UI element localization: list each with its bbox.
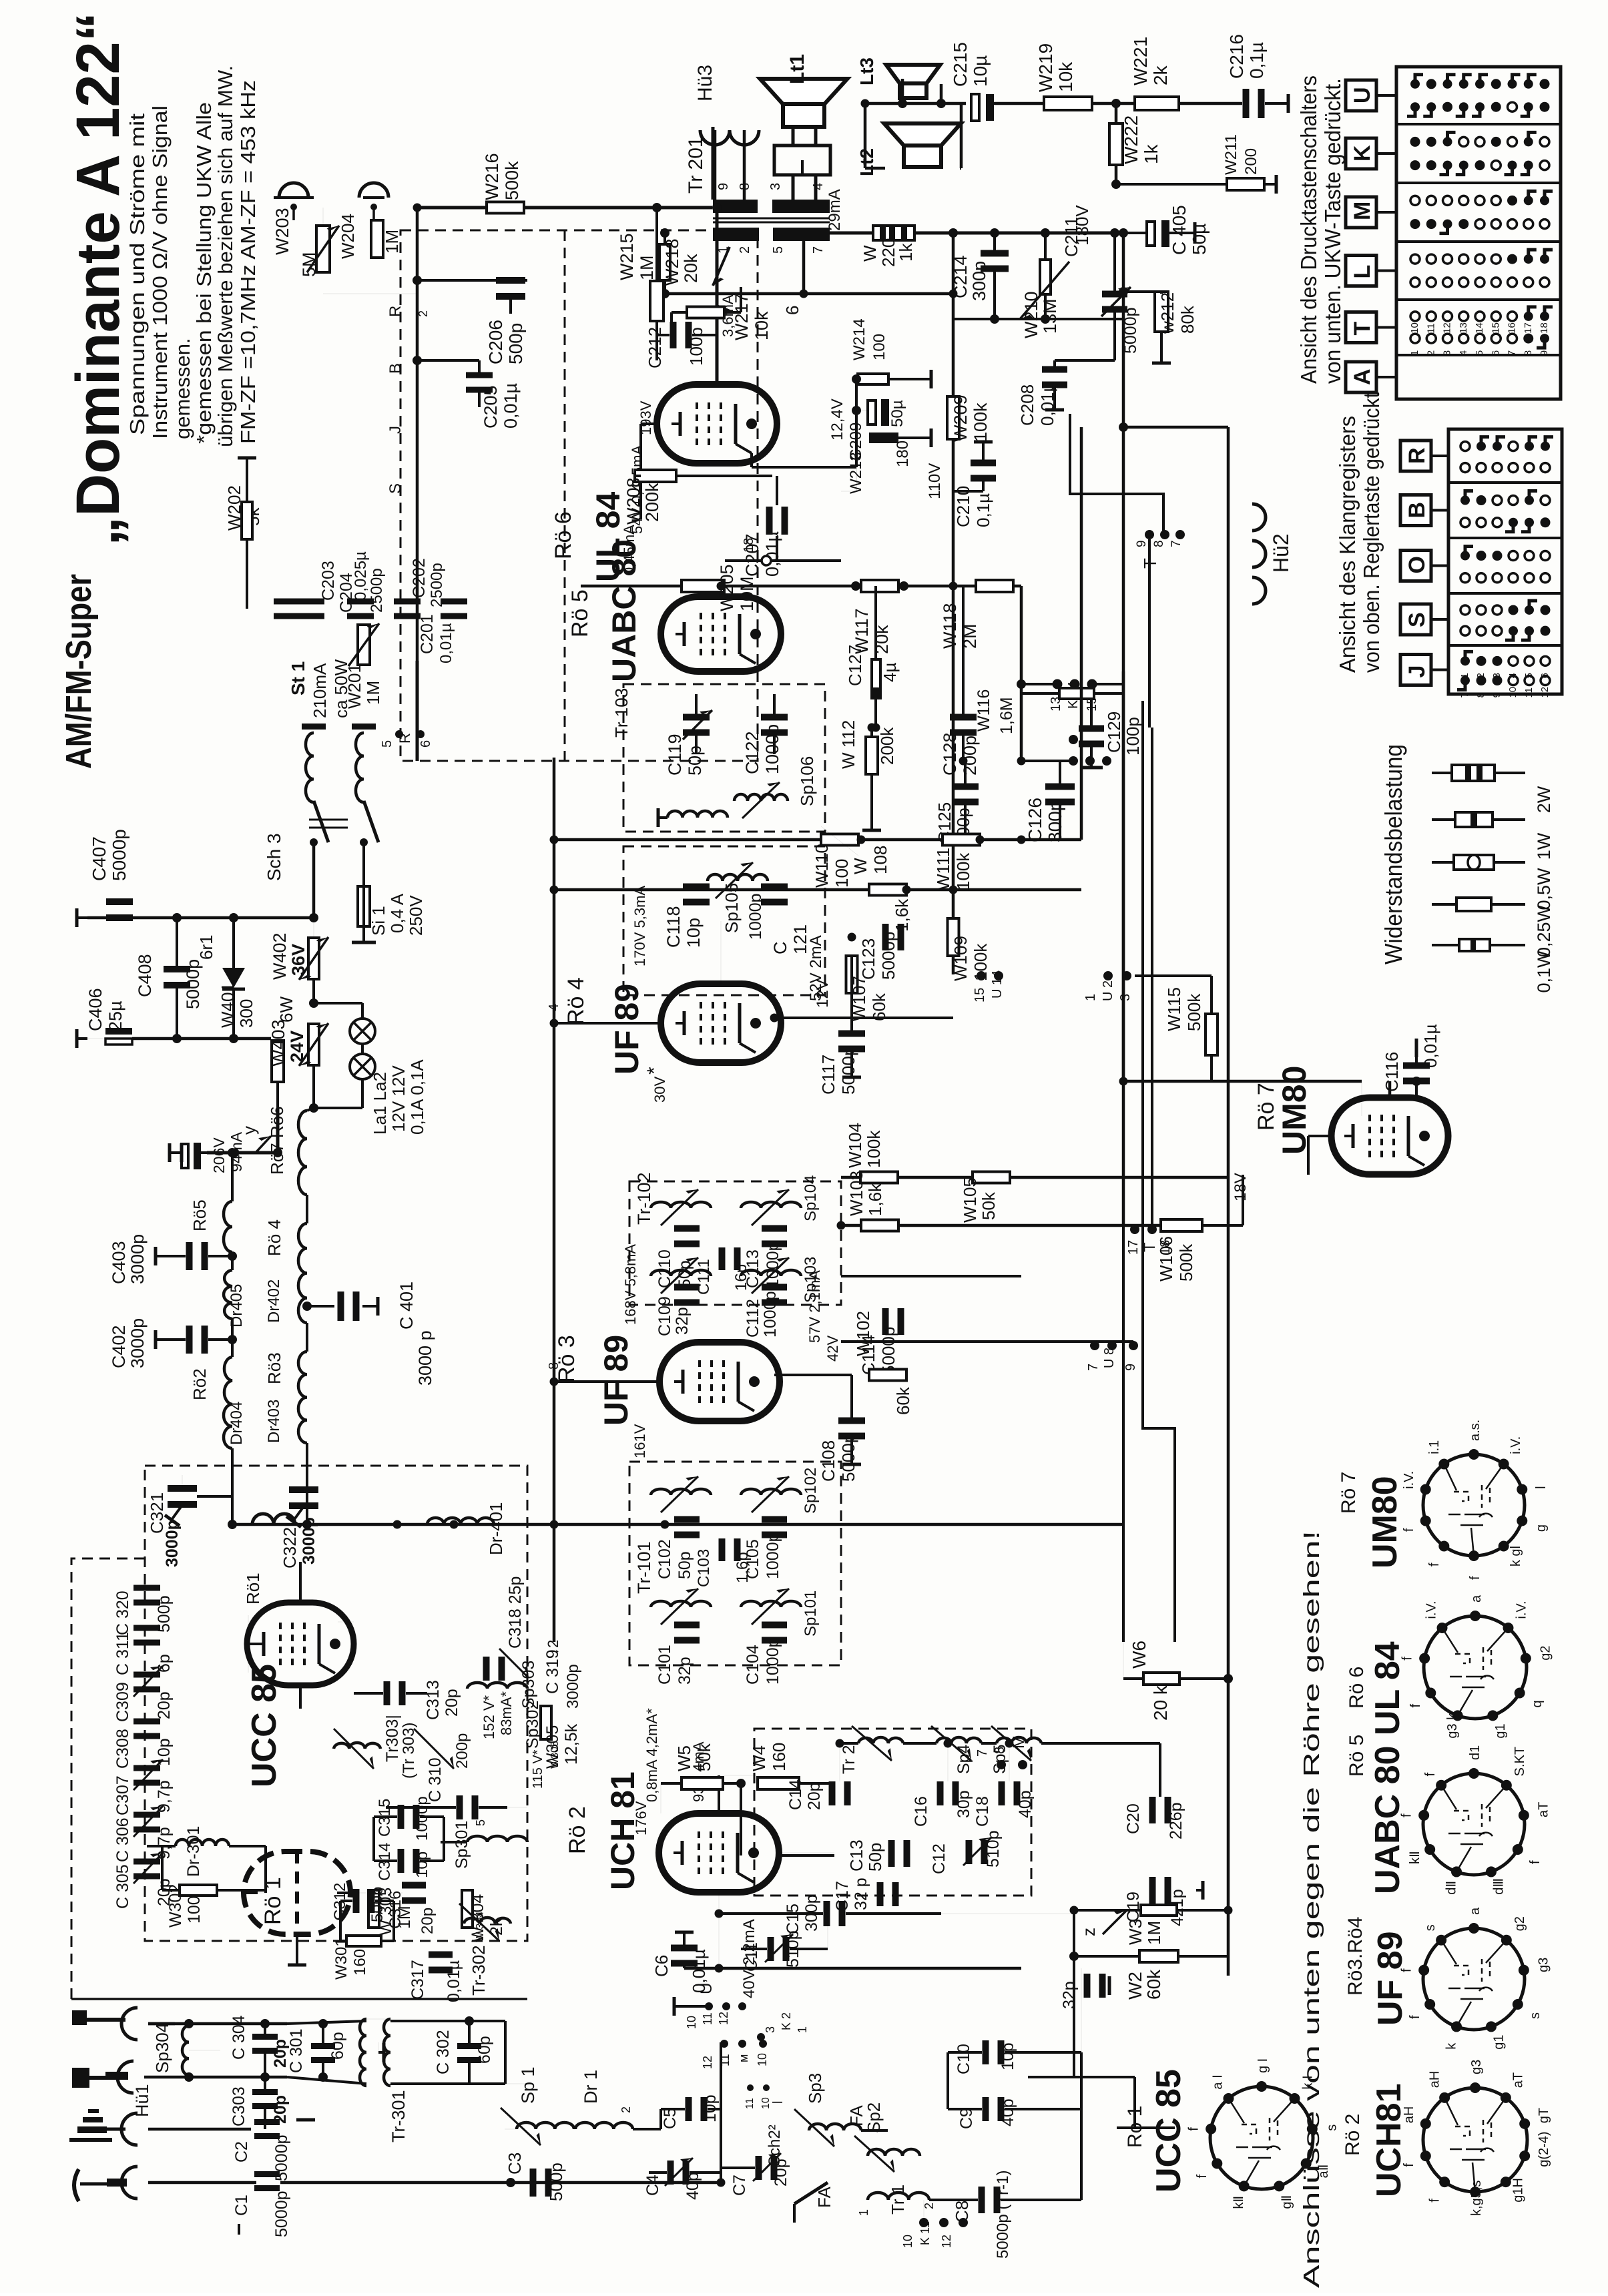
contacts L dots bbox=[720, 2040, 728, 2048]
resistor W221 bbox=[1135, 97, 1179, 110]
svg-text:W110: W110 bbox=[812, 844, 832, 888]
svg-text:W402: W402 bbox=[270, 932, 290, 980]
svg-text:2: 2 bbox=[417, 310, 430, 317]
svg-text:210mA: 210mA bbox=[310, 663, 330, 718]
svg-text:f: f bbox=[1528, 1860, 1543, 1864]
dashed box FM tuner outer bbox=[71, 1558, 145, 1999]
dashed partition bbox=[564, 230, 566, 761]
svg-text:Dr-301: Dr-301 bbox=[184, 1826, 203, 1877]
svg-text:60p: 60p bbox=[475, 2036, 494, 2064]
tube Roe1 UCC85 upper half bbox=[247, 1603, 354, 1685]
earth antenna symbol bbox=[77, 2126, 107, 2133]
wire row 1039 bbox=[1021, 692, 1123, 695]
svg-text:Rö 1: Rö 1 bbox=[260, 1877, 286, 1925]
svg-text:W401: W401 bbox=[218, 982, 238, 1028]
wire row 2284 Dr401 bbox=[232, 1523, 1123, 1526]
svg-text:übrigen Meßwerte beziehen s: übrigen Meßwerte beziehen sich auf MW. bbox=[214, 65, 237, 447]
cap 32p extra bbox=[1084, 1974, 1091, 1998]
svg-text:aT: aT bbox=[1511, 2072, 1525, 2088]
capacitor C322 bbox=[289, 1486, 318, 1493]
svg-text:3: 3 bbox=[1442, 350, 1453, 356]
resistor W103 bbox=[861, 1220, 898, 1231]
wire UL84 cathode bbox=[750, 453, 753, 467]
tone register switch matrix panel bbox=[1448, 429, 1562, 694]
register key S bbox=[1400, 604, 1431, 635]
svg-text:C118: C118 bbox=[663, 906, 684, 948]
svg-text:1M: 1M bbox=[1144, 1921, 1164, 1945]
svg-text:C208: C208 bbox=[1017, 384, 1037, 426]
wire mains rail bbox=[87, 916, 314, 920]
capacitor C117 bbox=[838, 1031, 865, 1037]
resistor W107 bbox=[846, 956, 858, 993]
svg-text:B: B bbox=[1404, 502, 1430, 519]
heater Roe1 bump bbox=[252, 1514, 295, 1524]
bus x1620 lower bbox=[1081, 1968, 1082, 2052]
resistor W106 bbox=[1161, 1219, 1202, 1231]
svg-text:W209: W209 bbox=[951, 394, 971, 442]
svg-text:180: 180 bbox=[894, 441, 912, 467]
resistor W222 bbox=[1109, 123, 1123, 165]
resistor W218 bbox=[659, 244, 670, 280]
svg-text:W301: W301 bbox=[332, 1938, 350, 1980]
speaker Lt3 bbox=[886, 65, 941, 83]
resistor W3 bbox=[1141, 1905, 1177, 1916]
svg-text:1000p: 1000p bbox=[764, 1532, 782, 1579]
svg-text:C9: C9 bbox=[957, 2108, 976, 2129]
wire vertical main right bbox=[952, 233, 955, 974]
contact row M bbox=[1410, 219, 1420, 229]
svg-text:i.V.: i.V. bbox=[1509, 1436, 1523, 1454]
resistor W4 bbox=[758, 1777, 799, 1789]
resistor W112 bbox=[866, 737, 878, 774]
svg-text:160: 160 bbox=[769, 1743, 789, 1771]
svg-text:aH: aH bbox=[1428, 2071, 1442, 2088]
svg-text:1: 1 bbox=[857, 2209, 870, 2216]
svg-text:W221: W221 bbox=[1130, 37, 1151, 85]
svg-text:Tr 1: Tr 1 bbox=[888, 2185, 908, 2215]
svg-text:S: S bbox=[1404, 612, 1430, 627]
resistor W111 bbox=[943, 834, 980, 846]
svg-text:f: f bbox=[1402, 1528, 1416, 1532]
svg-text:5000p: 5000p bbox=[1121, 307, 1140, 354]
capacitor C16 bbox=[937, 1781, 944, 1805]
svg-text:42V: 42V bbox=[824, 1336, 841, 1362]
svg-text:f: f bbox=[1195, 2175, 1210, 2179]
svg-text:0,1µ: 0,1µ bbox=[1246, 42, 1267, 79]
svg-text:0,01µ: 0,01µ bbox=[1420, 1024, 1440, 1068]
svg-text:Rö 2: Rö 2 bbox=[565, 1806, 590, 1854]
tube Roe5 UABC80 bbox=[661, 597, 781, 671]
svg-text:5000p: 5000p bbox=[878, 1327, 898, 1375]
capacitor C4 trim bbox=[667, 2161, 674, 2185]
svg-text:*: * bbox=[643, 1067, 665, 1075]
svg-text:W210: W210 bbox=[1021, 291, 1041, 338]
svg-text:s: s bbox=[1423, 1924, 1438, 1931]
svg-text:C16: C16 bbox=[912, 1796, 930, 1827]
heater chain right Roe3 Dr403 bbox=[298, 1352, 307, 1443]
dots M contacts bbox=[997, 1760, 1006, 1769]
svg-text:C4: C4 bbox=[643, 2175, 662, 2196]
svg-text:g3 k: g3 k bbox=[1445, 1713, 1460, 1739]
svg-text:2k: 2k bbox=[1150, 65, 1171, 85]
svg-text:2: 2 bbox=[619, 2106, 633, 2113]
svg-text:UF 89: UF 89 bbox=[608, 984, 645, 1075]
svg-text:500k: 500k bbox=[502, 161, 522, 200]
svg-text:C309: C309 bbox=[113, 1682, 132, 1722]
capacitor C123 bbox=[882, 924, 889, 950]
tube Roe2 UCH81 bbox=[659, 1813, 779, 1892]
svg-text:4: 4 bbox=[1458, 350, 1469, 356]
svg-text:Hü3: Hü3 bbox=[694, 65, 716, 101]
svg-text:115 V*: 115 V* bbox=[531, 1749, 545, 1789]
svg-text:50p: 50p bbox=[865, 1843, 885, 1872]
svg-text:Sp 1: Sp 1 bbox=[518, 2066, 538, 2104]
svg-text:200: 200 bbox=[1242, 148, 1260, 175]
svg-text:Rö5: Rö5 bbox=[190, 1199, 210, 1231]
svg-text:60k: 60k bbox=[893, 1386, 913, 1415]
svg-text:Rö1: Rö1 bbox=[243, 1572, 263, 1605]
svg-text:8: 8 bbox=[1475, 692, 1487, 697]
svg-text:Sp106: Sp106 bbox=[797, 756, 817, 806]
resistor W105 bbox=[973, 1172, 1010, 1183]
wire grid bus y878 bbox=[581, 585, 1021, 588]
wires lower right AM bbox=[1073, 1910, 1075, 2077]
coil Sp4 bbox=[936, 1737, 981, 1743]
capacitor C205 bbox=[466, 372, 493, 378]
resistor W208 bbox=[635, 470, 676, 482]
trim arrows on C305-C309 bbox=[133, 1666, 163, 1697]
svg-text:C5: C5 bbox=[661, 2108, 680, 2129]
svg-text:1: 1 bbox=[1459, 673, 1470, 678]
svg-text:12V 12V: 12V 12V bbox=[388, 1065, 409, 1132]
svg-text:UM80: UM80 bbox=[1366, 1476, 1404, 1568]
svg-text:5: 5 bbox=[1474, 350, 1485, 356]
capacitor C20 bbox=[1149, 1797, 1156, 1823]
svg-text:R: R bbox=[1404, 447, 1430, 464]
capacitor C2 bbox=[254, 2119, 280, 2125]
resistor W204 1M bbox=[371, 220, 383, 258]
svg-text:6: 6 bbox=[782, 306, 802, 315]
svg-text:Sch 3: Sch 3 bbox=[264, 833, 284, 881]
capacitor C127 electrolytic bbox=[872, 659, 880, 698]
svg-text:UF 89: UF 89 bbox=[1371, 1931, 1410, 2026]
svg-text:17: 17 bbox=[1523, 322, 1534, 334]
capacitor C108 bbox=[838, 1418, 865, 1424]
capacitor C12 trim bbox=[966, 1840, 973, 1864]
wire bottom discr bbox=[416, 661, 419, 761]
capacitor C403 bbox=[186, 1242, 193, 1270]
svg-text:FA: FA bbox=[846, 2105, 866, 2126]
pickup arrow symbol bbox=[74, 2169, 79, 2201]
svg-text:C212: C212 bbox=[645, 327, 665, 368]
transformer Tr201 bbox=[713, 200, 758, 213]
resistor W401 bbox=[272, 1041, 284, 1082]
cathode network W214 C209 W213 bbox=[858, 374, 888, 384]
svg-text:12: 12 bbox=[717, 2012, 730, 2025]
svg-text:FA: FA bbox=[814, 2187, 834, 2208]
svg-text:10: 10 bbox=[756, 2053, 769, 2066]
svg-text:C406: C406 bbox=[85, 988, 105, 1031]
svg-text:C128: C128 bbox=[940, 732, 960, 776]
svg-text:0,1A 0,1A: 0,1A 0,1A bbox=[407, 1059, 427, 1135]
svg-text:0,1µ: 0,1µ bbox=[973, 493, 993, 527]
button key U bbox=[1346, 80, 1376, 111]
svg-text:a I: a I bbox=[1211, 2074, 1226, 2089]
capacitor C9 bbox=[983, 2097, 989, 2121]
svg-text:aH: aH bbox=[1402, 2106, 1416, 2124]
capacitor C304 bbox=[252, 2034, 278, 2040]
svg-text:C122: C122 bbox=[742, 731, 762, 774]
svg-text:W213: W213 bbox=[847, 452, 865, 494]
svg-text:9: 9 bbox=[1491, 692, 1503, 697]
svg-text:dⅢ: dⅢ bbox=[1492, 1878, 1507, 1895]
svg-text:Spannungen und Ströme mit: Spannungen und Ströme mit bbox=[125, 113, 149, 435]
svg-text:Rö2: Rö2 bbox=[190, 1368, 210, 1400]
heater chain left Roe2 bbox=[224, 1357, 232, 1404]
svg-text:von unten. UKW-Taste gedrück: von unten. UKW-Taste gedrückt. bbox=[1320, 78, 1345, 384]
svg-text:FM-ZF =10,7MHz AM-ZF = 453: FM-ZF =10,7MHz AM-ZF = 453 kHz bbox=[236, 80, 260, 444]
wire UM80 connections bbox=[1123, 1080, 1362, 1083]
register key O bbox=[1400, 551, 1431, 581]
resistor W209 bbox=[947, 396, 959, 439]
svg-text:3: 3 bbox=[1491, 673, 1503, 678]
svg-text:510p: 510p bbox=[984, 1830, 1003, 1868]
svg-text:100p: 100p bbox=[686, 327, 706, 366]
coil Tr302 bbox=[464, 1918, 511, 1924]
potentiometer W210 13M bbox=[1040, 260, 1051, 294]
svg-text:10: 10 bbox=[1507, 687, 1519, 698]
arrow y tap bbox=[713, 247, 730, 286]
wire row 1333 bbox=[554, 888, 1081, 892]
capacitor C408 bbox=[164, 966, 190, 972]
svg-text:5000p: 5000p bbox=[878, 932, 898, 980]
wire UL84 plate bbox=[716, 208, 719, 384]
svg-text:A: A bbox=[1350, 368, 1375, 385]
svg-text:g3: g3 bbox=[1536, 1958, 1551, 1972]
svg-text:T: T bbox=[1350, 322, 1375, 336]
svg-text:10: 10 bbox=[685, 2016, 698, 2029]
svg-text:i.V.: i.V. bbox=[1402, 1471, 1416, 1489]
svg-text:17: 17 bbox=[1126, 1240, 1141, 1255]
potentiometer W402 bbox=[309, 913, 318, 922]
svg-text:10M: 10M bbox=[737, 576, 757, 611]
capacitor C17 bbox=[877, 1882, 884, 1906]
svg-text:9: 9 bbox=[716, 183, 731, 190]
svg-text:W214: W214 bbox=[850, 318, 868, 360]
resistor W220 coloured bbox=[873, 226, 914, 240]
svg-text:Tr-301: Tr-301 bbox=[388, 2090, 409, 2142]
svg-text:12: 12 bbox=[1539, 687, 1551, 698]
svg-text:1M: 1M bbox=[363, 681, 383, 705]
U contacts row 2010 bbox=[841, 1340, 1133, 1343]
svg-text:3000p: 3000p bbox=[300, 1517, 318, 1564]
svg-text:110V: 110V bbox=[926, 463, 944, 499]
svg-text:168V 5,8mA: 168V 5,8mA bbox=[622, 1244, 639, 1325]
choke Dr401 bbox=[427, 1518, 494, 1524]
svg-text:10p: 10p bbox=[155, 1738, 174, 1766]
discr network wires bbox=[417, 279, 527, 282]
svg-text:C408: C408 bbox=[135, 954, 155, 997]
svg-text:C20: C20 bbox=[1124, 1803, 1143, 1834]
svg-text:0,025µ: 0,025µ bbox=[352, 551, 370, 601]
svg-text:100p: 100p bbox=[1123, 717, 1143, 756]
svg-text:C 305: C 305 bbox=[113, 1864, 132, 1909]
svg-text:Tr 2: Tr 2 bbox=[840, 1745, 858, 1774]
register contact row J bbox=[1460, 656, 1470, 665]
capacitor C116 bbox=[1403, 1063, 1430, 1069]
svg-text:C102: C102 bbox=[655, 1539, 674, 1579]
svg-text:4: 4 bbox=[811, 183, 826, 190]
capacitor C18 bbox=[999, 1781, 1005, 1805]
capacitor C407 bbox=[106, 898, 133, 905]
capacitor C6 bbox=[671, 1945, 698, 1952]
resistor W2 bbox=[1139, 1950, 1178, 1962]
svg-text:UCC 85: UCC 85 bbox=[1149, 2069, 1188, 2193]
U contacts mid bbox=[977, 971, 986, 980]
svg-text:C322: C322 bbox=[280, 1527, 300, 1568]
svg-text:g1: g1 bbox=[1493, 1723, 1508, 1738]
svg-text:0,01µ: 0,01µ bbox=[501, 383, 521, 428]
svg-text:C6: C6 bbox=[651, 1955, 672, 1977]
svg-text:W: W bbox=[860, 245, 880, 262]
node W219 W221 bbox=[1111, 99, 1121, 108]
svg-text:C108: C108 bbox=[818, 1440, 838, 1482]
resistor W212 bbox=[1155, 292, 1168, 332]
contact row T bbox=[1410, 334, 1420, 343]
contacts small 11 10 L bbox=[747, 2084, 754, 2091]
wire right bus down bbox=[1122, 233, 1125, 1225]
svg-text:C7: C7 bbox=[730, 2175, 749, 2196]
svg-text:M: M bbox=[1350, 202, 1375, 220]
resistor W117 bbox=[861, 580, 898, 592]
svg-text:40p: 40p bbox=[1016, 1790, 1035, 1818]
heater chain left Dr405 bbox=[224, 1270, 232, 1319]
svg-text:C 405: C 405 bbox=[1169, 205, 1189, 255]
svg-text:a: a bbox=[1469, 1595, 1484, 1603]
svg-text:C14: C14 bbox=[786, 1779, 805, 1810]
wire UABC80 plate bbox=[720, 586, 723, 597]
svg-text:i.V.: i.V. bbox=[1424, 1601, 1439, 1619]
svg-text:W5: W5 bbox=[674, 1745, 694, 1771]
svg-text:40p: 40p bbox=[999, 2098, 1017, 2126]
svg-text:i.1: i.1 bbox=[1427, 1440, 1442, 1454]
svg-text:C 302: C 302 bbox=[434, 2030, 453, 2074]
svg-text:C 311: C 311 bbox=[113, 1632, 132, 1675]
transformer Tr103 coil bbox=[667, 811, 728, 818]
resistor power legend symbols bbox=[1432, 772, 1525, 774]
wire antenna rows bbox=[148, 2022, 175, 2026]
svg-text:aT: aT bbox=[1536, 1802, 1551, 1817]
svg-text:5000p: 5000p bbox=[838, 1047, 858, 1095]
svg-text:5: 5 bbox=[474, 1819, 487, 1826]
svg-text:3000 p: 3000 p bbox=[415, 1330, 435, 1386]
svg-text:W305: W305 bbox=[543, 1725, 562, 1769]
svg-text:1000p: 1000p bbox=[762, 724, 782, 774]
svg-text:500k: 500k bbox=[1184, 993, 1204, 1031]
coil Sp5 bbox=[997, 1737, 1041, 1743]
svg-text:AM/FM-Super: AM/FM-Super bbox=[59, 574, 99, 769]
coil Tr2 bbox=[858, 1737, 903, 1743]
svg-text:83mA*: 83mA* bbox=[498, 1691, 515, 1735]
svg-text:4: 4 bbox=[1507, 673, 1519, 678]
svg-text:1,6M: 1,6M bbox=[997, 697, 1016, 734]
svg-text:C1: C1 bbox=[232, 2195, 251, 2216]
svg-text:Sp102: Sp102 bbox=[802, 1468, 820, 1514]
wire T tap bbox=[1070, 414, 1163, 531]
svg-text:W: W bbox=[850, 858, 870, 874]
svg-text:f: f bbox=[1428, 2199, 1442, 2203]
svg-text:20p: 20p bbox=[805, 1782, 824, 1810]
svg-text:f: f bbox=[1187, 2127, 1201, 2131]
svg-text:aⅡ: aⅡ bbox=[1316, 2165, 1331, 2179]
svg-text:C407: C407 bbox=[89, 836, 109, 881]
contacts U x3 bbox=[1103, 971, 1113, 980]
svg-text:52V 2mA: 52V 2mA bbox=[807, 935, 825, 1001]
svg-text:UABC 80: UABC 80 bbox=[605, 539, 643, 682]
svg-text:C116: C116 bbox=[1382, 1052, 1402, 1092]
svg-text:500p: 500p bbox=[368, 1887, 386, 1922]
svg-text:g3: g3 bbox=[1469, 2060, 1484, 2074]
svg-text:7: 7 bbox=[1086, 1364, 1101, 1371]
button key T bbox=[1346, 312, 1376, 343]
register key J bbox=[1400, 655, 1431, 685]
capacitor C119 trim bbox=[683, 714, 710, 721]
svg-text:5M: 5M bbox=[299, 252, 319, 277]
svg-text:W4: W4 bbox=[749, 1745, 769, 1771]
svg-text:k: k bbox=[1444, 2042, 1458, 2050]
tube Roe1 UCC85 lower half dashed bbox=[244, 1851, 350, 1934]
svg-text:200k: 200k bbox=[877, 727, 897, 765]
capacitor C206 bbox=[496, 277, 525, 284]
capacitor C129 bbox=[1079, 726, 1104, 732]
svg-text:f: f bbox=[1400, 1657, 1415, 1661]
wire rows right of Tr102 bbox=[841, 1176, 1228, 1179]
svg-text:3000p: 3000p bbox=[564, 1664, 582, 1709]
svg-text:8: 8 bbox=[993, 1747, 1007, 1754]
svg-text:Lt2: Lt2 bbox=[856, 148, 877, 176]
svg-text:0,01µ: 0,01µ bbox=[445, 1960, 463, 2002]
svg-text:g: g bbox=[1534, 1524, 1549, 1532]
resistor W110 bbox=[821, 834, 858, 846]
svg-text:30V: 30V bbox=[651, 1077, 668, 1103]
capacitor C118 bbox=[683, 884, 710, 890]
svg-text:g1H: g1H bbox=[1511, 2178, 1525, 2203]
svg-text:10k: 10k bbox=[752, 311, 772, 340]
svg-text:0,5W: 0,5W bbox=[1534, 868, 1554, 910]
svg-text:11: 11 bbox=[1523, 687, 1535, 698]
svg-text:d1: d1 bbox=[1468, 1745, 1483, 1760]
svg-text:5: 5 bbox=[771, 246, 786, 254]
svg-text:Dr404: Dr404 bbox=[228, 1402, 246, 1445]
right vertical buses bbox=[1080, 427, 1083, 840]
potentiometer W201 1M bbox=[358, 625, 370, 665]
svg-text:12: 12 bbox=[940, 2235, 953, 2248]
capacitor C402 bbox=[186, 1326, 193, 1354]
hooks test points bbox=[279, 183, 308, 198]
svg-text:C 301: C 301 bbox=[287, 2028, 306, 2073]
capacitor C5 bbox=[686, 2097, 692, 2121]
heater chain left Dr404 bbox=[224, 1404, 232, 1448]
heater chain right Roe7 Roe6 bbox=[298, 1111, 307, 1195]
Tr301 balun bbox=[360, 2019, 366, 2086]
wire row 1258 bbox=[554, 838, 1021, 842]
svg-text:U 2: U 2 bbox=[1101, 980, 1115, 1001]
svg-text:Rö7 Rö6: Rö7 Rö6 bbox=[267, 1106, 287, 1175]
svg-text:W109: W109 bbox=[951, 936, 971, 981]
capacitor C215 bbox=[971, 94, 979, 121]
svg-text:15: 15 bbox=[973, 988, 987, 1002]
svg-text:k gl: k gl bbox=[1509, 1546, 1523, 1566]
